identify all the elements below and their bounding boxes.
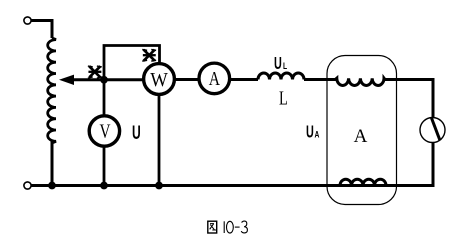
bottom rail wire bbox=[31, 184, 434, 187]
node junction on top wire bbox=[100, 76, 108, 84]
label UA bbox=[306, 123, 320, 142]
svg-text:U: U bbox=[132, 122, 141, 144]
wire junction to voltmeter bbox=[103, 82, 106, 116]
autotransformer coil T bbox=[48, 38, 56, 143]
svg-text:A: A bbox=[209, 68, 220, 90]
wire A to inductor bbox=[230, 78, 259, 81]
wire box to right corner and down to lamp bbox=[383, 80, 433, 119]
svg-text:V: V bbox=[100, 119, 111, 141]
indicator lamp circle bbox=[420, 118, 445, 143]
wire lamp down to bottom rail bbox=[432, 142, 435, 186]
device box (apparatus A) bbox=[327, 56, 397, 205]
label UL bbox=[274, 54, 287, 73]
wire from top terminal to coil top bbox=[31, 21, 52, 39]
wattmeter voltage-coil loop wire bbox=[104, 46, 160, 80]
svg-text:W: W bbox=[150, 69, 168, 91]
wire inductor to box coil bbox=[304, 78, 337, 81]
svg-text:L: L bbox=[283, 61, 287, 71]
svg-text:L: L bbox=[279, 86, 288, 109]
terminal top-left bbox=[24, 17, 31, 24]
svg-text:A: A bbox=[354, 126, 368, 147]
coil top (inside A) bbox=[335, 78, 385, 85]
wire wattmeter to rail bbox=[158, 95, 161, 186]
svg-text:U: U bbox=[306, 123, 314, 142]
junction node (coil / rail) bbox=[48, 182, 56, 190]
junction node (voltmeter / rail) bbox=[100, 182, 108, 190]
caption text 10-3 bbox=[224, 221, 247, 233]
caption character 图 bbox=[208, 221, 217, 233]
wiper arrow bbox=[59, 75, 74, 85]
wire from coil bottom to bottom rail bbox=[51, 142, 54, 186]
junction node (wattmeter / rail) bbox=[155, 182, 163, 190]
svg-text:A: A bbox=[315, 129, 320, 139]
wattmeter W bbox=[144, 64, 175, 95]
voltmeter V bbox=[89, 116, 119, 146]
svg-text:U: U bbox=[274, 54, 282, 73]
wire voltmeter to rail bbox=[103, 147, 106, 186]
lamp diagonal stroke bbox=[432, 118, 441, 141]
coil bottom (inside A) bbox=[340, 179, 386, 185]
wire arrow to wattmeter bbox=[72, 78, 143, 81]
polarity mark * (current coil) bbox=[89, 66, 101, 78]
terminal bottom-left bbox=[24, 182, 31, 189]
inductor L bbox=[258, 73, 304, 79]
ammeter A bbox=[199, 63, 230, 94]
wire W to A bbox=[175, 78, 199, 81]
polarity mark * (voltage coil) bbox=[143, 50, 155, 61]
